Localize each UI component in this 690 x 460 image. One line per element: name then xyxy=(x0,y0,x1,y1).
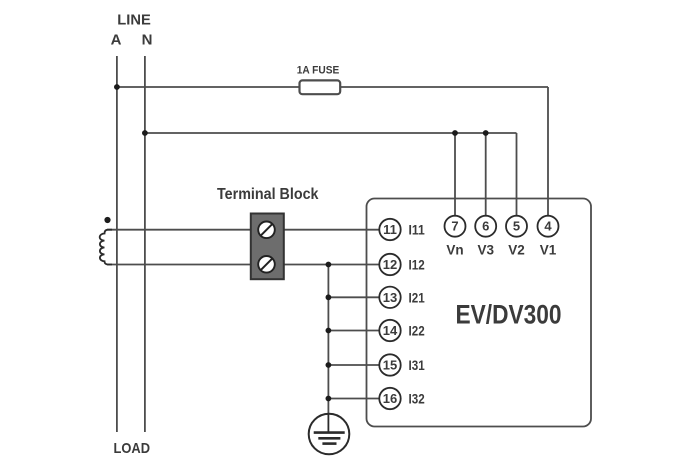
node junction Vn xyxy=(452,130,458,136)
wire I-bus vertical xyxy=(327,265,329,415)
svg-text:5: 5 xyxy=(513,219,520,234)
meter EV/DV300 body xyxy=(367,199,592,427)
terminal 12 xyxy=(379,254,400,275)
svg-text:7: 7 xyxy=(451,219,458,234)
svg-text:Vn: Vn xyxy=(446,243,463,258)
node junction V3 xyxy=(483,130,489,136)
svg-text:V3: V3 xyxy=(477,243,494,258)
svg-text:I31: I31 xyxy=(409,358,426,373)
svg-text:4: 4 xyxy=(544,219,552,234)
wire to I31 xyxy=(328,364,379,366)
wire CT secondary top xyxy=(107,229,379,231)
wire fuse to corner xyxy=(340,86,548,88)
svg-text:V2: V2 xyxy=(508,243,525,258)
wire fuse feed from line A xyxy=(117,86,300,88)
node bus / I32 xyxy=(326,396,332,402)
svg-text:6: 6 xyxy=(482,219,489,234)
svg-text:13: 13 xyxy=(383,290,397,305)
node bus / I21 xyxy=(326,294,332,300)
svg-text:I21: I21 xyxy=(409,290,426,305)
wire V1 drop xyxy=(547,87,549,216)
svg-text:16: 16 xyxy=(383,391,397,406)
wire CT secondary bottom xyxy=(107,264,379,266)
terminal 11 xyxy=(379,219,400,240)
wire to I21 xyxy=(328,296,379,298)
node junction line A / fuse wire xyxy=(114,84,120,90)
svg-text:12: 12 xyxy=(383,257,397,272)
terminal block screw top xyxy=(258,222,275,239)
svg-text:11: 11 xyxy=(383,222,397,237)
wire Vn drop xyxy=(454,133,456,216)
svg-text:I32: I32 xyxy=(409,392,425,407)
wire neutral from line N xyxy=(145,132,517,134)
terminal 7 xyxy=(445,216,466,237)
terminal 4 xyxy=(538,216,559,237)
fuse F1 xyxy=(300,80,341,94)
svg-text:I22: I22 xyxy=(409,324,425,339)
terminal 16 xyxy=(379,388,400,409)
svg-text:N: N xyxy=(142,32,153,49)
svg-text:15: 15 xyxy=(383,358,397,373)
svg-text:14: 14 xyxy=(383,323,398,338)
svg-text:A: A xyxy=(111,32,122,49)
wire line A vertical xyxy=(116,56,118,432)
node bus / I12 xyxy=(326,262,332,268)
svg-text:LINE: LINE xyxy=(117,12,151,29)
svg-text:I11: I11 xyxy=(409,223,426,238)
node bus / I22 xyxy=(326,328,332,334)
terminal 14 xyxy=(379,320,400,341)
svg-text:Terminal Block: Terminal Block xyxy=(217,186,319,203)
svg-text:1A FUSE: 1A FUSE xyxy=(297,65,340,77)
CT polarity dot xyxy=(104,217,110,223)
ground xyxy=(309,414,350,455)
node bus / I31 xyxy=(326,362,332,368)
CT coil xyxy=(100,230,112,265)
terminal 6 xyxy=(475,216,496,237)
wire line N vertical xyxy=(144,56,146,432)
svg-text:V1: V1 xyxy=(540,243,557,258)
terminal block body xyxy=(251,214,284,280)
terminal block screw bottom xyxy=(258,256,275,273)
svg-text:LOAD: LOAD xyxy=(114,440,151,457)
svg-text:I12: I12 xyxy=(409,258,425,273)
terminal 15 xyxy=(379,354,400,375)
wire V3 drop xyxy=(485,133,487,216)
node junction line N / neutral wire xyxy=(142,130,148,136)
wire to I22 xyxy=(328,330,379,332)
svg-text:EV/DV300: EV/DV300 xyxy=(456,300,562,330)
terminal 5 xyxy=(506,216,527,237)
terminal 13 xyxy=(379,287,400,308)
wire V2 drop xyxy=(516,133,518,216)
wire to I32 xyxy=(328,398,379,400)
